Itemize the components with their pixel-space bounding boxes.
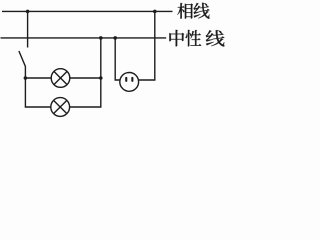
node: junction dot lamp return on neutral	[99, 36, 103, 40]
switch S1: open blade	[19, 51, 25, 66]
wire: socket right terminal right and up to phase	[139, 11, 155, 80]
wire: phase line down to switch top contact (crosses neutral, no dot)	[27, 11, 29, 47]
net label 相线 (phase line)	[177, 3, 209, 19]
wire: switch bottom down to lamp branch	[24, 66, 26, 108]
node: junction dot socket feed on phase	[153, 10, 157, 14]
node: junction dot socket feed on neutral	[113, 36, 117, 40]
wire: lamp return riser to neutral	[100, 38, 102, 78]
net label 中性线 (neutral line)	[169, 30, 224, 47]
wire: neutral down and right to socket left terminal	[115, 38, 120, 80]
wire: right lead of lamp L1	[70, 77, 101, 79]
lamp L1: circle with X	[51, 69, 70, 88]
wire: neutral bus line	[1, 37, 167, 39]
lamp L2: circle with X	[51, 98, 70, 117]
node: junction dot at lamp leads meeting	[99, 76, 103, 80]
node: junction dot at lamp parallel split	[24, 76, 28, 80]
socket X1: circle with two slots	[120, 73, 139, 92]
wire: phase bus line	[2, 10, 173, 12]
wire: left lead of lamp L2	[25, 106, 51, 108]
wire: left lead of lamp L1	[25, 77, 51, 79]
node: junction dot on phase line at switch feed	[26, 10, 30, 14]
wire: right lead of lamp L2 up to return wire	[70, 78, 101, 107]
